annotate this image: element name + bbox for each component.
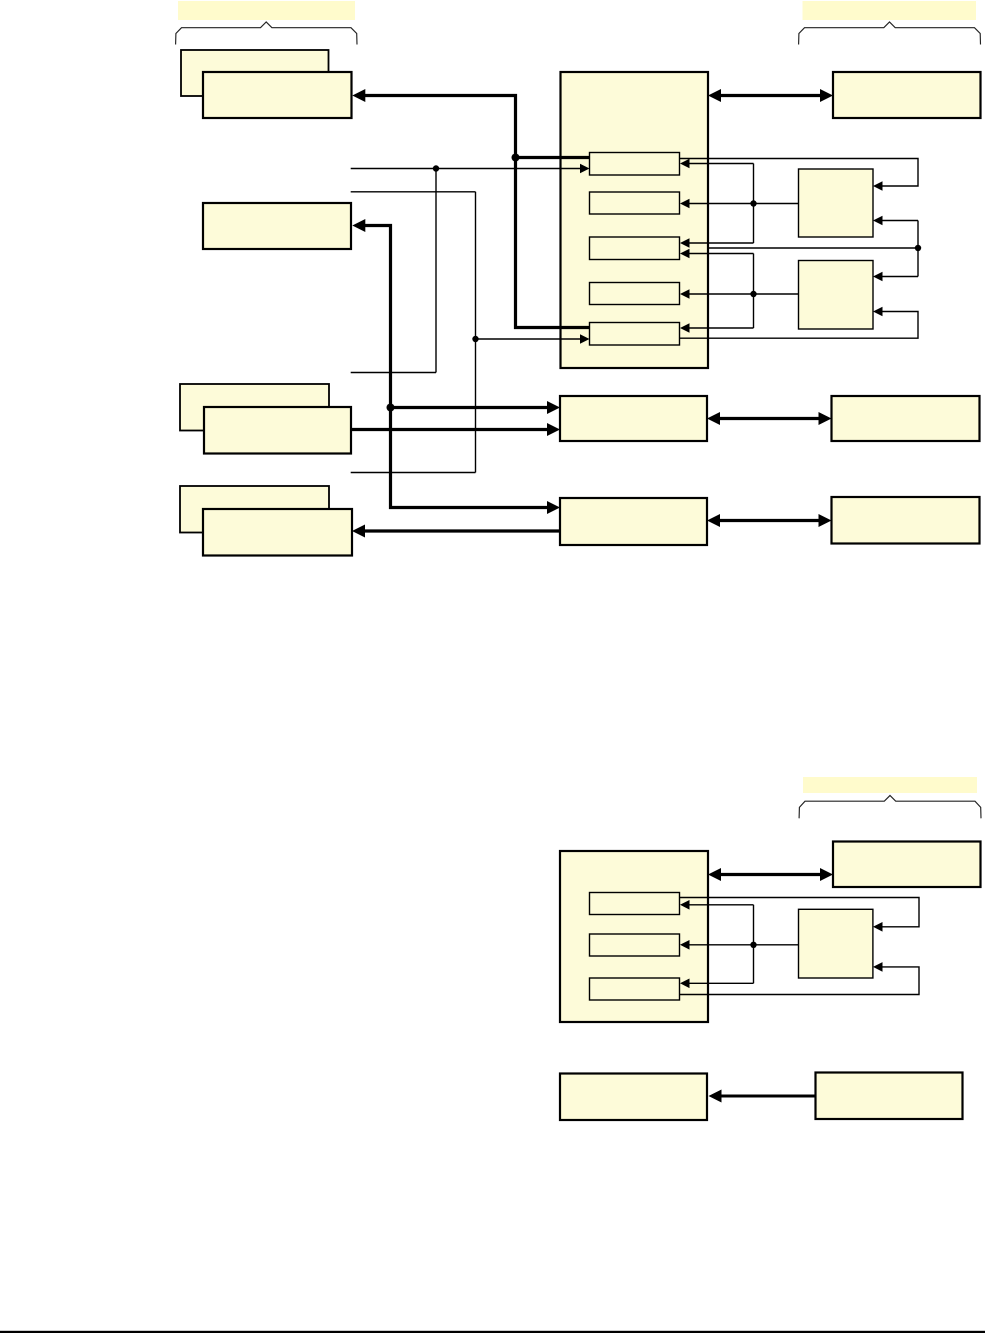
wire B to SQ1 input2 — [882, 220, 918, 222]
arrowhead into T1 — [680, 900, 690, 910]
row2 center box — [560, 396, 707, 441]
arrowhead into S2 — [680, 199, 690, 209]
brace top-right — [799, 22, 981, 45]
bus2 junction dot — [387, 404, 395, 412]
wire SQ1 output to S2 — [689, 203, 799, 205]
bus2 branch wire to row2 center box — [391, 406, 550, 409]
box pair3 front — [203, 509, 352, 556]
wire to T3 arrow — [689, 982, 754, 984]
arrowhead into row2 center box input1 — [547, 401, 560, 414]
highlight strip top-left — [178, 1, 355, 20]
wire B from big box — [708, 247, 918, 249]
SQ2 distribution vertical wire — [753, 254, 755, 329]
row3 double arrow — [718, 519, 821, 522]
big box upper — [561, 72, 709, 368]
sub-box S3 — [590, 237, 680, 260]
arrowhead right at lower wide box — [820, 868, 833, 881]
arrowhead left at row2 center — [707, 412, 720, 425]
wire SQ2 output to S4 — [689, 293, 799, 295]
arrowhead into row2 center box input2 — [547, 423, 560, 436]
bottom-right box — [816, 1073, 963, 1120]
thin wire L1 to S1 — [351, 168, 581, 170]
wire to T1 arrow — [689, 904, 754, 906]
sub-box S4 — [590, 283, 680, 305]
bottom-left box — [560, 1074, 707, 1121]
L1 bottom wire — [351, 372, 436, 374]
thin wire L2 horizontal — [351, 191, 476, 193]
brace lower — [799, 796, 981, 819]
bus1 junction dot — [512, 154, 520, 162]
arrowhead into S3 upper — [680, 238, 690, 248]
arrowhead into SQ1 input1 — [873, 181, 883, 191]
highlight strip lower — [803, 777, 977, 793]
L2 wire to S5 — [476, 338, 581, 340]
arrowhead into SQ3 input2 — [873, 962, 883, 972]
wire A from S1 to SQ1 input1 — [680, 159, 919, 187]
thick bus1 wire — [364, 96, 590, 328]
arrowhead into row3 center box — [547, 501, 560, 514]
box pair2 front — [204, 407, 351, 454]
double arrow big box to wide box — [719, 94, 822, 97]
middle-left box — [203, 203, 351, 249]
L2 junction dot — [472, 336, 478, 342]
sub-box S5 — [590, 323, 680, 346]
arrowhead left at big box — [708, 89, 721, 102]
footer rule — [0, 1331, 985, 1333]
arrowhead into SQ3 input1 — [873, 922, 883, 932]
SQ3 output junction dot — [750, 942, 756, 948]
row3 right box — [832, 497, 980, 544]
arrowhead into T3 — [680, 979, 690, 989]
row3 center box — [560, 498, 707, 545]
SQ2 output junction dot — [750, 291, 756, 297]
box pair1 back — [181, 50, 329, 96]
L2 bottom wire — [351, 472, 476, 474]
arrowhead right at row2 right — [819, 412, 832, 425]
wire pair2 front to row2 center box — [351, 428, 549, 431]
wire C from S5 to SQ2 input2 — [680, 312, 919, 339]
arrowhead into pair1 front box — [352, 89, 365, 102]
wire to S3 upper arrow — [689, 242, 754, 244]
square box SQ3 — [799, 909, 873, 978]
arrowhead into T2 — [680, 940, 690, 950]
arrowhead left at row3 center — [707, 514, 720, 527]
sub-box T1 — [590, 893, 680, 915]
arrowhead right into S5 left edge — [580, 334, 590, 344]
row2 double arrow — [718, 417, 821, 420]
brace top-left — [176, 22, 357, 45]
square box SQ2 — [799, 261, 874, 330]
sub-box T2 — [590, 934, 680, 956]
highlight strip top-right — [803, 1, 977, 20]
sub-box T3 — [590, 978, 680, 1000]
box pair1 front — [203, 72, 352, 118]
wide box lower right — [833, 842, 981, 888]
thick bus2 wire — [364, 226, 549, 508]
L1 vertical wire — [435, 169, 437, 373]
arrowhead into SQ1 input2 — [873, 216, 883, 226]
arrowhead into pair3 front box — [352, 525, 365, 538]
arrowhead into S5 right — [680, 323, 690, 333]
arrowhead into SQ2 input2 — [873, 307, 883, 317]
wire B junction dot — [915, 245, 921, 251]
SQ1 output junction dot — [750, 200, 756, 206]
wide box top-right — [833, 72, 981, 118]
arrowhead into S1 right — [680, 159, 690, 169]
SQ1 distribution vertical wire — [753, 164, 755, 244]
wire to S1 right arrow — [689, 163, 754, 165]
L1 junction dot — [433, 165, 439, 171]
wire to S5 right arrow — [689, 327, 754, 329]
arrowhead into S3 lower — [680, 249, 690, 259]
arrowhead right at row3 right — [819, 514, 832, 527]
arrowhead right at wide box — [820, 89, 833, 102]
big box lower — [560, 851, 708, 1022]
wire A2 from T1 to SQ3 input1 — [680, 898, 920, 927]
sub-box S2 — [590, 192, 680, 214]
arrowhead right into S1 left edge — [580, 164, 590, 174]
wire C2 from T3 to SQ3 input2 — [680, 967, 920, 995]
arrowhead left at lower big box — [708, 868, 721, 881]
sub-box S1 — [590, 153, 680, 176]
box pair2 back — [180, 384, 329, 431]
SQ3 distribution vertical wire — [753, 905, 755, 984]
arrowhead into bottom-left box — [709, 1090, 722, 1103]
arrowhead into S4 — [680, 289, 690, 299]
wire B vertical — [917, 221, 919, 277]
bottom arrow wire — [720, 1095, 816, 1098]
wire SQ3 output to T2 — [689, 944, 799, 946]
square box SQ1 — [799, 169, 874, 237]
lower double arrow — [719, 873, 822, 876]
wire B to SQ2 input1 — [882, 276, 918, 278]
box pair3 back — [180, 486, 329, 533]
L2 vertical wire — [475, 192, 477, 473]
bus1 branch wire to S1 — [516, 156, 590, 159]
arrowhead into SQ2 input1 — [873, 272, 883, 282]
wire to S3 lower arrow — [689, 253, 754, 255]
wire row3 center to pair3 front — [364, 529, 560, 532]
arrowhead into middle-left box — [352, 219, 365, 232]
row2 right box — [832, 396, 980, 441]
